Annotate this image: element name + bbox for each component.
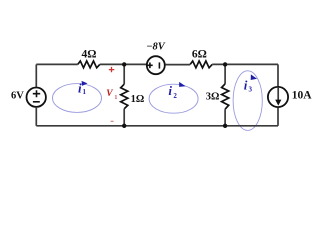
current source 10A arrow shaft (277, 87, 279, 100)
svg-text:i: i (244, 78, 248, 93)
annotation red minus (Vx polarity bottom) (111, 120, 114, 122)
mesh loop i2 arrowhead (179, 82, 186, 87)
current source 10A arrowhead (275, 100, 281, 106)
svg-text:2: 2 (173, 92, 177, 100)
resistor R 4ohm zigzag (78, 61, 100, 68)
svg-text:10A: 10A (292, 90, 313, 102)
wire top segment right (6ohm to top-right corner) (212, 63, 278, 65)
current source 10A circle (268, 87, 288, 107)
svg-text:6Ω: 6Ω (192, 48, 207, 60)
mesh loop i1 arrowhead (82, 81, 88, 86)
wire 1ohm branch lower (123, 109, 125, 126)
voltage source 6V plus sign (33, 90, 40, 97)
voltage source -8V plus sign (147, 63, 153, 69)
voltage source 6V minus sign (33, 101, 40, 103)
wire right branch lower (277, 108, 279, 126)
mesh loop i3 ellipse (233, 71, 262, 131)
svg-text:−8V: −8V (146, 42, 166, 53)
annotation red plus (Vx polarity top) (109, 67, 115, 72)
svg-text:i: i (168, 83, 172, 98)
svg-text:3Ω: 3Ω (206, 91, 220, 102)
voltage source -8V circle (147, 56, 165, 74)
resistor R 1ohm zigzag (121, 84, 128, 109)
svg-text:1Ω: 1Ω (131, 94, 145, 105)
wire top segment between 4ohm and -8V source (100, 63, 146, 65)
wire 3ohm branch upper (224, 64, 226, 84)
svg-text:i: i (78, 81, 82, 96)
mesh loop i1 ellipse (53, 84, 102, 113)
junction node dot top-right (3ohm top) (223, 62, 227, 66)
svg-text:3: 3 (249, 86, 253, 94)
voltage source -8V minus sign (vertical) (158, 62, 160, 68)
junction node dot top-left (1ohm top) (122, 62, 126, 66)
wire left branch lower (35, 108, 37, 126)
wire top segment left (to 4ohm) (36, 63, 78, 65)
svg-text:4Ω: 4Ω (82, 48, 97, 60)
wire bottom rail (36, 125, 278, 127)
wire 1ohm branch upper (123, 64, 125, 84)
wire 3ohm branch lower (224, 109, 226, 126)
svg-text:V: V (106, 89, 113, 99)
junction node dot bottom-left (1ohm bottom) (122, 124, 126, 128)
svg-text:1: 1 (114, 94, 117, 101)
wire right branch upper (277, 64, 279, 86)
wire top segment between -8V and 6ohm (165, 64, 190, 66)
junction node dot bottom-right (3ohm bottom) (223, 124, 227, 128)
resistor R 3ohm zigzag (222, 84, 229, 109)
mesh loop i2 ellipse (149, 84, 198, 113)
voltage source 6V circle (27, 88, 46, 107)
resistor R 6ohm zigzag (190, 61, 212, 68)
svg-text:1: 1 (83, 88, 87, 96)
wire left branch upper (35, 64, 37, 87)
mesh loop i3 arrowhead (251, 74, 257, 80)
svg-text:6V: 6V (11, 90, 24, 101)
